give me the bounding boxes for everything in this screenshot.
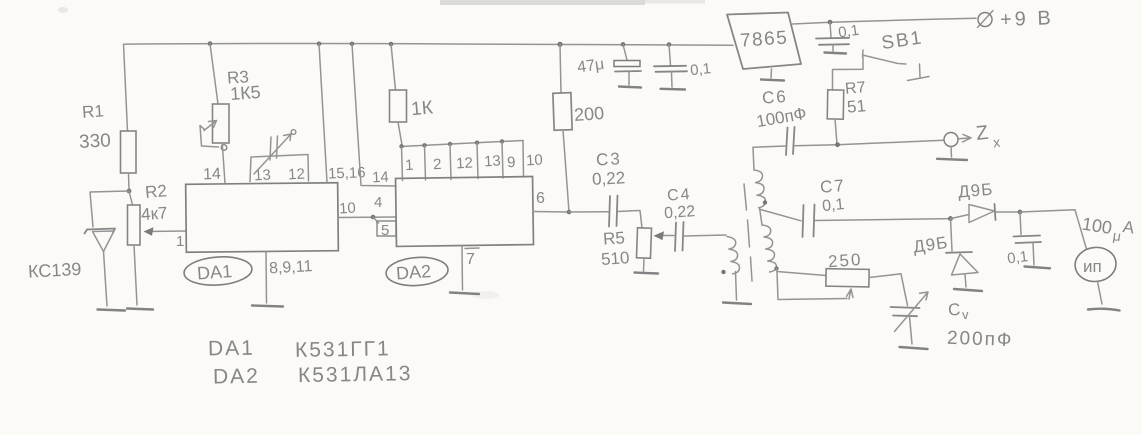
ground C9: [825, 53, 847, 54]
svg-text:2: 2: [433, 156, 442, 173]
ground VD3: [954, 289, 982, 291]
wire R5 wiper arrow to C4: [658, 235, 674, 237]
voltage regulator U3 7865 body: [727, 13, 801, 70]
svg-text:200: 200: [573, 103, 604, 125]
wire rail to R3: [210, 44, 218, 104]
svg-text:DA2: DA2: [395, 261, 431, 283]
DA2 pin 5 box: [377, 221, 396, 236]
node junction 1K on rail: [389, 42, 394, 47]
wire rail to R1: [124, 44, 128, 131]
node ladder dot 2: [422, 143, 426, 147]
wire rail to DA1 pins 15,16: [319, 44, 327, 182]
ground Cv: [900, 347, 928, 349]
capacitor C7 0.1 plates: [803, 205, 815, 238]
wire Cv to ground: [910, 317, 913, 345]
wire wiper strap: [777, 272, 847, 300]
ground 7865: [761, 80, 784, 81]
svg-text:8,9,11: 8,9,11: [269, 258, 313, 277]
svg-text:9: 9: [507, 154, 516, 171]
svg-text:С: С: [947, 300, 961, 320]
label DA1 ellipse: [183, 255, 253, 288]
node ladder dot 5: [500, 139, 504, 143]
ground 0.1: [661, 88, 686, 91]
ground Zx: [937, 159, 967, 160]
logic gate U2 DA2 body: [396, 177, 534, 247]
wire DA1 pin 10 to DA2 pin 4: [338, 216, 396, 219]
capacitor Cv arrow: [895, 292, 929, 332]
svg-text:6: 6: [536, 190, 545, 207]
svg-text:7865: 7865: [739, 27, 789, 51]
wire Zx to ground: [950, 147, 953, 158]
winding I phasing dot: [763, 200, 767, 204]
trimmer R3 wiper terminal loop: [221, 145, 227, 151]
wire 250 to Cv: [869, 274, 908, 306]
trimmer cap tip loop: [291, 130, 296, 135]
node junction wire 15,16 on rail: [317, 42, 322, 47]
wire meter to ground: [1098, 282, 1103, 305]
svg-text:10: 10: [339, 200, 357, 218]
node junction 200/pin6: [567, 210, 572, 215]
resistor R3 trimmer body: [213, 104, 230, 143]
svg-text:0,1: 0,1: [837, 22, 860, 42]
svg-text:330: 330: [79, 130, 112, 153]
DA1 pins 13,12 sub-box: [250, 155, 309, 182]
svg-text:1: 1: [405, 157, 414, 174]
switch SB1 right contact: [908, 64, 930, 81]
svg-text:К531ЛА13: К531ЛА13: [298, 362, 413, 387]
svg-text:С3: С3: [596, 149, 623, 169]
svg-text:ип: ип: [1083, 257, 1102, 276]
wire rail to 1K resistor: [391, 44, 396, 90]
capacitor C5 47u plates: [614, 61, 641, 72]
ladder divider wire a: [402, 147, 403, 181]
svg-text:0,1: 0,1: [1006, 248, 1029, 267]
svg-text:10: 10: [526, 152, 544, 170]
node transformer tap: [760, 208, 763, 225]
svg-text:R5: R5: [602, 228, 625, 248]
wire 0.1 to ground: [671, 72, 674, 87]
op-amp U1 DA1 body: [186, 183, 339, 253]
svg-text:DA2: DA2: [213, 365, 260, 389]
node junction R7/C6 wire: [835, 142, 840, 147]
resistor R6 200 body: [553, 93, 572, 131]
wire tap to C7: [761, 210, 802, 221]
capacitor C10 0.1 plates: [1014, 236, 1042, 244]
wire +9V supply top rail: [124, 43, 734, 45]
svg-text:Z: Z: [975, 122, 989, 145]
wire node to C3: [569, 211, 609, 213]
wire DA2 pin 7 to ground: [461, 246, 464, 290]
node ladder dot 3: [448, 142, 452, 146]
pin 7 overline tick: [465, 247, 479, 250]
wire C4 to transformer primary: [684, 235, 726, 236]
diode VD3 D9B vertical: stem: [951, 219, 953, 251]
resistor R7 51 body: [827, 90, 844, 119]
wire rail to 200 resistor: [560, 44, 561, 93]
wire DA1 pins 8,9,11 to ground: [265, 252, 268, 303]
wire C6 node to transformer T1 winding I top: [753, 146, 786, 170]
wire 200 to pin6 node: [563, 130, 569, 212]
svg-text:250: 250: [827, 250, 863, 271]
svg-text:С6: С6: [761, 87, 788, 108]
wire C7 to detector node: [815, 219, 950, 221]
ladder divider wire d: [477, 143, 478, 179]
wire DA2 pin 6 output: [533, 211, 569, 214]
wire 47u to ground: [628, 72, 630, 86]
svg-text:14: 14: [203, 166, 221, 184]
svg-text:0,1: 0,1: [689, 60, 712, 79]
svg-text:14: 14: [372, 169, 390, 187]
wire VD3 to ground: [965, 275, 966, 288]
svg-text:1К: 1К: [410, 97, 433, 120]
node detector junction: [948, 216, 953, 221]
wire node to DA2 pin 5 box: [373, 217, 379, 223]
ground DA2: [450, 293, 479, 295]
ground winding III: [723, 303, 751, 305]
svg-text:+9 В: +9 В: [1000, 7, 1054, 31]
svg-text:200пФ: 200пФ: [947, 328, 1014, 351]
wire R7 to Zx node: [835, 119, 837, 144]
node ladder dot 1: [399, 144, 403, 148]
wire node A to zener: [90, 191, 129, 227]
capacitor C9 0.1 plates: [816, 38, 849, 45]
capacitor C4 0.22: [675, 222, 684, 251]
capacitor variable quartz trimmer above DA1: [254, 134, 291, 174]
svg-text:R1: R1: [81, 101, 104, 121]
node ladder dot 4: [475, 141, 479, 145]
wire R2 to ground: [134, 245, 137, 305]
svg-text:С4: С4: [667, 186, 693, 205]
svg-text:13: 13: [254, 167, 272, 185]
potentiometer R8 250 body: [826, 269, 869, 287]
wire R3 to DA1 pin 14: [222, 143, 225, 183]
svg-text:13: 13: [484, 153, 502, 171]
node junction 0.1 on rail: [667, 42, 672, 47]
ground DA1: [252, 306, 283, 307]
node junction 47u on rail: [621, 42, 626, 47]
capacitor C3 0.22: [609, 196, 618, 227]
svg-text:4: 4: [374, 194, 382, 211]
wire rail to DA2 pin 14: [352, 44, 396, 186]
ground R5: [635, 273, 659, 274]
diode VD2 D9B horizontal: [951, 204, 996, 223]
wire VD2 to meter node: [996, 211, 1021, 213]
wire 1K to DA2 input ladder: [398, 122, 402, 145]
svg-text:4к7: 4к7: [140, 203, 168, 224]
node junction wire pin14 DA2 on rail: [350, 42, 355, 47]
ground C10: [1025, 267, 1051, 269]
node junction R3 on rail: [208, 41, 213, 46]
winding III phasing dot: [721, 270, 725, 274]
svg-text:0,1: 0,1: [821, 196, 845, 215]
transformer T1 winding I (upper secondary half): [754, 170, 766, 208]
resistor R2 (potentiometer) body: [128, 205, 141, 245]
transformer T1 winding III (primary): [727, 237, 740, 274]
capacitor C10 0.1 detector: stem: [1020, 212, 1021, 235]
svg-text:DA1: DA1: [208, 337, 255, 361]
svg-text:С7: С7: [819, 176, 846, 197]
ground meter: [1088, 309, 1120, 311]
wire SB1 to R7: [833, 57, 864, 90]
svg-text:R2: R2: [144, 181, 167, 202]
meter PA1 circle: [1073, 245, 1117, 283]
resistor R4 1K body: [390, 90, 407, 122]
terminal Zx circle: [944, 133, 958, 147]
ground 47u: [619, 87, 641, 88]
wire R1 to node A: [128, 173, 131, 190]
transformer core dashed: [744, 184, 752, 281]
wire C3 to R5: [618, 211, 642, 229]
node junction 200 on rail: [557, 42, 562, 47]
svg-text:1К5: 1К5: [229, 82, 261, 104]
wire winding II to potentiometer 250: [777, 269, 827, 276]
ladder divider wire e: [502, 142, 503, 179]
wire 7865 ground pin: [770, 69, 773, 78]
node junction 0.1/meter: [1018, 210, 1023, 215]
wire C9 to ground: [832, 45, 834, 51]
trimmer R3 wiper arrow and strap: [200, 121, 219, 148]
svg-text:0,22: 0,22: [664, 203, 696, 222]
zener diode VD1 KC139: [85, 229, 116, 252]
transformer T1 winding II (lower secondary half): [762, 225, 776, 272]
resistor R1 body: [121, 131, 137, 173]
capacitor C6 100n plates: [786, 127, 795, 155]
resistor R5 510 body: [636, 228, 651, 258]
node A junction R1/R2/zener: [127, 189, 132, 194]
svg-text:0,22: 0,22: [592, 168, 626, 189]
ladder divider wire b: [425, 146, 426, 181]
wire zener to ground: [104, 252, 108, 307]
wire winding III to ground: [736, 272, 737, 301]
wire R2 wiper arrow from DA1 pin 1: [146, 230, 186, 233]
svg-text:12: 12: [456, 155, 474, 173]
svg-text:DA1: DA1: [196, 261, 232, 283]
ladder divider wire c: [450, 144, 451, 180]
wire R5 to ground: [643, 258, 646, 271]
winding II phasing dot: [774, 266, 778, 270]
wire 7865 output rail: [793, 18, 977, 24]
capacitor C9 0.1 output: stem: [830, 22, 831, 37]
ground zener: [98, 310, 126, 311]
capacitor C8 0.1 plates: [654, 66, 687, 72]
wire node to meter lead: [1020, 210, 1087, 249]
capacitor C8 0.1: wire from rail: [669, 45, 671, 66]
label DA2 ellipse: [385, 255, 449, 287]
switch SB1 lever: [863, 50, 907, 64]
svg-text:12: 12: [288, 166, 306, 184]
svg-text:5: 5: [381, 222, 389, 239]
DA2 input ladder top bus: [401, 141, 524, 147]
svg-text:К531ГГ1: К531ГГ1: [295, 337, 391, 362]
capacitor Cv variable plates: [891, 307, 920, 316]
diode VD3 D9B vertical: [946, 252, 978, 275]
svg-text:Д9Б: Д9Б: [957, 180, 994, 202]
svg-text:1: 1: [176, 233, 184, 250]
svg-text:КС139: КС139: [28, 259, 82, 282]
ladder divider wire f: [522, 141, 525, 178]
wire node A to R2: [129, 191, 133, 205]
terminal Zx arrow: [959, 134, 971, 142]
svg-text:R7: R7: [844, 79, 866, 98]
terminal +9V circle: [978, 11, 994, 28]
node junction pins 4/5 DA2: [371, 215, 376, 220]
node junction 0.1 output on rail: [828, 20, 833, 25]
potentiometer R8 wiper arrow: [847, 289, 854, 299]
wire C10 to ground: [1033, 243, 1034, 265]
svg-text:51: 51: [846, 96, 867, 117]
svg-text:510: 510: [600, 248, 630, 269]
ground R2: [127, 309, 153, 310]
capacitor C5 47u electrolytic: wire from rail: [623, 44, 627, 60]
wire C6 to Zx terminal: [795, 140, 944, 146]
svg-text:7: 7: [466, 251, 475, 268]
